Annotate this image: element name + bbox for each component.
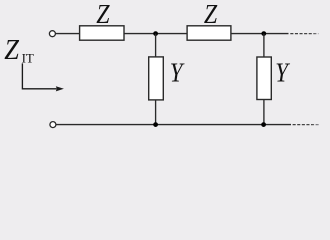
node B' (junction dot, bottom of second shunt branch) (261, 122, 266, 127)
wire (top: Z box 2 to node B and continuation) (231, 33, 289, 35)
svg-text:Z: Z (4, 34, 19, 66)
node A' (junction dot, bottom of first shunt branch) (153, 122, 158, 127)
wire (bottom rail) (56, 124, 291, 126)
wire (top: Z box 1 to Z box 2 through node A) (124, 33, 187, 35)
admittance box Y1 (shunt admittance Y) (149, 57, 164, 100)
resistor box Z1 (series impedance Z) (80, 26, 124, 40)
wire (first shunt branch, Y box 1 down to bottom rail) (155, 100, 157, 125)
wire (first shunt branch, node A down to Y box 1) (155, 34, 157, 57)
wire (top: terminal to Z box 1) (56, 33, 80, 35)
arrow (Z_IT looking into network, down then right) (22, 63, 56, 88)
wire (second shunt branch, node B down to Y box 2) (263, 34, 265, 57)
node B (junction dot, top of second shunt branch) (261, 31, 266, 36)
terminal (open circle, bottom-left input) (50, 122, 56, 128)
admittance box Y2 (shunt admittance Y) (257, 57, 271, 100)
svg-text:Z: Z (204, 0, 218, 29)
wire (second shunt branch, Y box 2 down to bottom rail) (263, 100, 265, 125)
terminal (open circle, top-left input) (49, 31, 55, 37)
wire (top continuation, dashed to the right) (290, 33, 318, 35)
wire (bottom continuation, dashed to the right) (293, 124, 319, 126)
svg-text:Z: Z (96, 0, 110, 29)
resistor box Z2 (series impedance Z) (187, 26, 231, 40)
svg-text:IT: IT (22, 50, 34, 65)
node A (junction dot, top of first shunt branch) (153, 31, 158, 36)
